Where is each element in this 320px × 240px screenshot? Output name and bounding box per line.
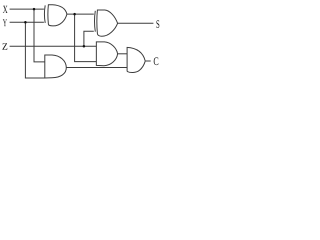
svg-text:S: S — [156, 19, 160, 31]
svg-text:C: C — [153, 56, 159, 69]
svg-text:Z: Z — [2, 42, 8, 53]
svg-text:Y: Y — [3, 16, 7, 28]
svg-text:X: X — [3, 3, 8, 15]
